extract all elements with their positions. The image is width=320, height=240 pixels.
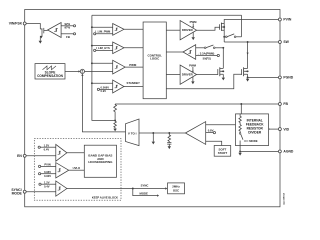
node 0.8V reference terminal [206,129,216,134]
svg-text:OSC: OSC [173,188,180,192]
MODE arrow label [244,139,258,143]
node bus-comp1 junction [91,26,93,28]
svg-text:LOGIC: LOGIC [150,56,160,60]
svg-text:Σ: Σ [81,70,83,74]
capacitor C1 compensation [167,143,171,147]
wire bus to comparator inputs [92,27,113,83]
transistor Q4 LDO pass PMOS [40,28,48,41]
svg-text:aaa-038914: aaa-038914 [283,192,286,204]
pin VID [278,127,289,131]
transistor Q3 low-side right [242,67,249,77]
node bus-comp2 junction [91,45,93,47]
wire U3 input FB [61,33,76,40]
ground (Q2 source) [222,78,225,81]
pin SYNC/MODE [11,188,26,195]
wire Q3 source to PGND pin [248,76,279,78]
svg-text:DRIVER: DRIVER [182,28,194,32]
wire divider to AGND pin [240,150,278,152]
ground (compensation) [168,146,171,149]
svg-text:0.4V: 0.4V [44,147,50,151]
pin PVIN [278,18,291,22]
svg-text:START: START [218,151,228,155]
svg-text:PGND: PGND [283,76,293,80]
svg-text:PVIN: PVIN [283,18,291,22]
switch S1 bypass [223,34,241,38]
wire U10 lower input with terminal [196,52,220,61]
svg-text:MODE: MODE [249,139,258,143]
wire Q3 gate from control logic [166,74,241,89]
svg-text:1.2V: 1.2V [44,180,50,184]
svg-text:0.90V: 0.90V [44,174,51,178]
node bus-comp4 junction [91,82,93,84]
comparator U12 UVLO [39,163,85,179]
wire MODE signal [133,189,159,197]
wire EN to comparator [26,155,56,157]
resistor R4 divider bottom [239,124,241,132]
control logic block [143,22,166,99]
svg-text:0.4V: 0.4V [44,184,50,188]
switch S3 divider MODE [239,133,243,152]
svg-text:KEEP ALIVE BLOCK: KEEP ALIVE BLOCK [92,196,118,200]
switch S2 zero-cross sense [196,45,224,49]
IC boundary box [25,10,280,207]
svg-text:DIVIDER: DIVIDER [248,130,262,134]
svg-text:FB: FB [66,35,70,39]
pin PGND [278,76,293,80]
pin AGND [278,150,293,154]
wire U2 top input to divider [206,124,236,126]
resistor R3 divider top [239,114,241,125]
op-amp U10 zero-cross comparator (points left) [166,45,195,60]
svg-text:DRIVER: DRIVER [182,73,194,77]
op-amp U3 LDO comparator (points left) [48,23,62,38]
wire rail drop to switch [241,15,243,37]
transistor Q2 low-side left [218,67,224,77]
node COMP junction B [168,132,170,134]
node PGND junction [247,76,249,78]
ground (COMP sink arrow) [152,133,155,144]
svg-text:97%: 97% [64,26,70,30]
svg-text:COMPENSATION: COMPENSATION [37,74,63,78]
svg-text:PWM: PWM [190,20,198,24]
svg-text:I_LIM_PWM: I_LIM_PWM [95,29,111,33]
svg-text:→3.3A(PWM): →3.3A(PWM) [197,52,214,56]
wire VIN/FSK pin to pass transistor [26,24,40,30]
resistor R2 compensation [168,133,171,142]
svg-text:SW: SW [283,40,289,44]
wire U3 input 92%/97% [61,22,76,30]
svg-text:EN: EN [17,154,22,158]
node ZX tap junction [222,47,224,49]
wire FB to divider block [240,104,242,114]
comparator U4 I_LIM_PWM [94,24,144,36]
comparator U11 EN threshold [38,143,84,161]
svg-text:SYNC: SYNC [141,184,149,188]
svg-text:UVLO: UVLO [73,166,80,170]
svg-text:MODE: MODE [12,191,23,195]
svg-text:PVIN: PVIN [44,163,50,167]
svg-text:PWM: PWM [129,63,137,67]
svg-text:MODE: MODE [139,192,148,196]
wire SYNC signal [67,184,167,190]
node bus-comp3 junction [91,62,93,64]
node FB-divider junction [240,103,242,105]
comparator U7 STANDBY [97,80,143,93]
node SYNC/MODE split junction [132,188,134,190]
wire VID into divider [269,128,279,130]
wire SW node [224,41,278,43]
ground (Q3 source) [246,77,249,81]
svg-text:0.566V: 0.566V [101,86,110,90]
wire U2 lower input to soft start [206,141,222,145]
wire FB net [115,103,278,105]
svg-text:1.2V: 1.2V [44,143,50,147]
oscillator block [168,183,185,194]
ground (LDO source) [39,41,42,44]
pin SW [278,40,289,44]
wire PVIN to high-side FET [224,20,278,43]
svg-text:V TO I: V TO I [128,132,137,136]
wire sense bus vertical [92,15,115,120]
transistor Q1 high-side [220,23,226,31]
svg-text:FB: FB [283,102,288,106]
node COMP junction A [152,132,154,134]
svg-text:STANDBY: STANDBY [127,81,140,85]
node summer [65,69,113,73]
svg-text:0.8V: 0.8V [208,129,214,133]
pin VIN/FSK [9,22,26,26]
slope compensation block [35,64,65,79]
band gap bias block [84,145,116,177]
pin FB [278,102,288,106]
op-amp U2 error amplifier (points left) [185,122,205,145]
driver U9 low-side [166,63,218,84]
svg-text:VID: VID [283,127,289,131]
node AGND junction [239,150,241,152]
svg-text:AGND: AGND [283,150,294,154]
svg-text:PWM: PWM [189,63,197,67]
soft start block [214,146,231,157]
svg-text:I_LIM_HYS: I_LIM_HYS [96,46,110,50]
wire COMP node [139,132,185,134]
svg-text:HOUSEKEEPING: HOUSEKEEPING [88,160,113,164]
comparator U5 I_LIM_HYS [94,42,144,54]
node sense junction [114,119,116,121]
wire SW to low-side FET with sense arrow [247,42,249,68]
keep alive block dashed boundary [34,139,121,201]
pin EN [17,154,26,158]
svg-text:50(FS): 50(FS) [203,57,211,61]
ground (sense arrow) [113,120,116,131]
svg-text:VIN/FSK: VIN/FSK [9,22,23,26]
wire V TO I output to summer [81,74,125,132]
resistor R1 FB sense [114,104,117,120]
V TO I converter block [126,119,140,146]
comparator U6 PWM [113,60,143,74]
svg-text:0.9V: 0.9V [101,89,107,93]
wire SYNC/MODE to comparator [26,191,56,193]
ground (divider) [238,151,241,155]
wire ZX tap to low-side FET1 drain [222,48,224,69]
svg-text:0.96V: 0.96V [44,170,51,174]
wire internal sense rail [92,14,242,16]
internal feedback resistor divider block [236,114,269,146]
comparator U13 SYNC/MODE threshold [39,180,67,196]
driver U8 high-side [166,20,219,40]
node SW junction [247,41,249,43]
